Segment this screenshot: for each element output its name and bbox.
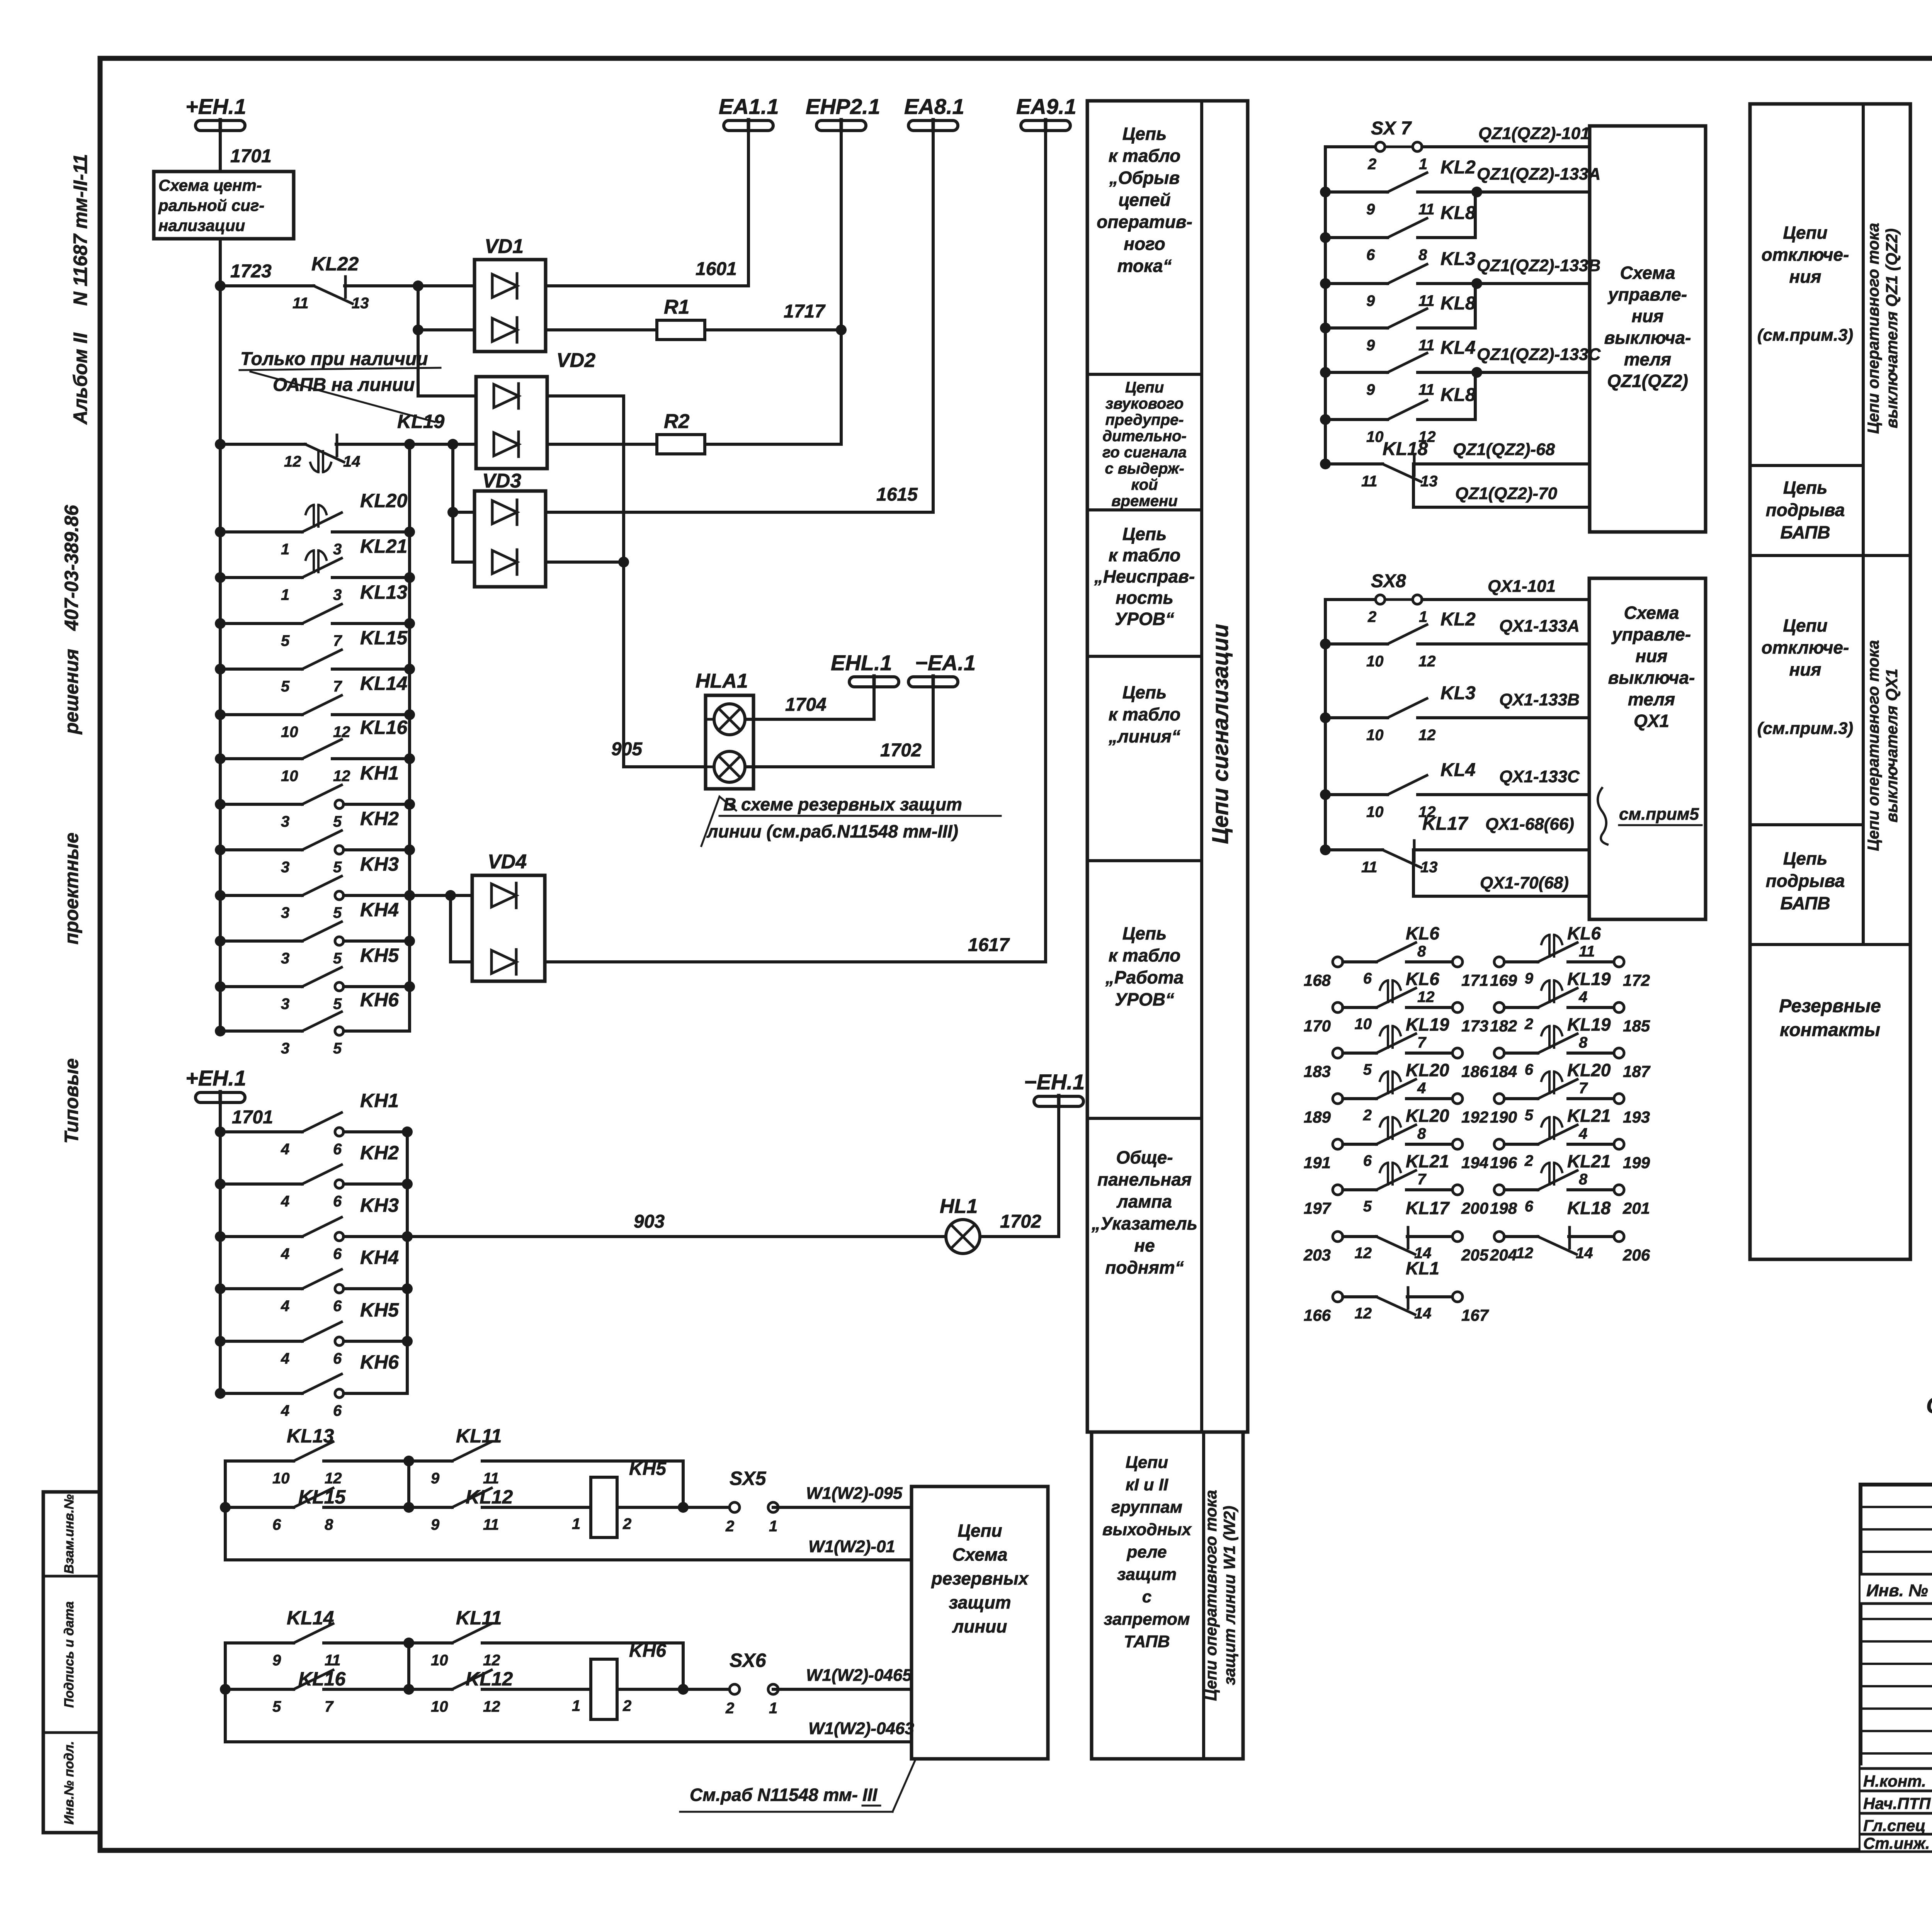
- contact KL3 (QX group): [1320, 712, 1331, 723]
- svg-text:12: 12: [1418, 653, 1436, 670]
- svg-text:200: 200: [1461, 1199, 1488, 1217]
- svg-text:5: 5: [1363, 1198, 1372, 1215]
- svg-text:ральной сиг-: ральной сиг-: [158, 196, 264, 214]
- node KL19 VD feed: [447, 439, 458, 450]
- svg-text:„линия“: „линия“: [1108, 726, 1180, 746]
- wire QX1-101: [1422, 598, 1589, 601]
- svg-text:не: не: [1134, 1235, 1155, 1255]
- svg-text:KL4: KL4: [1440, 760, 1476, 780]
- svg-text:5: 5: [272, 1698, 281, 1715]
- svg-text:12: 12: [1355, 1305, 1372, 1322]
- wire QZ1(QZ2)-101: [1422, 145, 1590, 148]
- spare contact KL6 (169-172): [1494, 957, 1504, 967]
- svg-text:203: 203: [1303, 1246, 1331, 1264]
- svg-text:решения: решения: [61, 649, 82, 735]
- wire right bus (lamp ladder): [406, 1132, 409, 1393]
- svg-text:3: 3: [281, 859, 289, 876]
- svg-text:182: 182: [1490, 1017, 1517, 1035]
- svg-text:3: 3: [333, 586, 342, 603]
- svg-text:выключателя QX1: выключателя QX1: [1883, 669, 1901, 822]
- wire EA9.1 down to 1617: [1044, 131, 1047, 962]
- svg-text:4: 4: [281, 1141, 289, 1158]
- svg-text:2: 2: [725, 1518, 734, 1535]
- wire VD4 to EA9.1 node 1617: [545, 960, 1046, 963]
- svg-text:Нач.ПТП: Нач.ПТП: [1863, 1794, 1931, 1813]
- svg-text:5: 5: [1363, 1061, 1372, 1078]
- stamp box column: [43, 1492, 100, 1833]
- contact KH5 (lamp ladder): [215, 1336, 226, 1347]
- contact KH2 (signal ladder): [215, 844, 226, 855]
- svg-text:W1(W2)-01: W1(W2)-01: [808, 1537, 895, 1556]
- box Схема центральной сигнализации: [154, 172, 294, 239]
- contact KL2 (QX group): [1320, 639, 1331, 649]
- svg-text:14: 14: [1414, 1305, 1432, 1322]
- svg-text:+EH.1: +EH.1: [185, 94, 246, 119]
- svg-text:Схема: Схема: [1620, 263, 1675, 283]
- box Цепи Схема резервных защит линии: [912, 1486, 1048, 1759]
- svg-text:7: 7: [1417, 1171, 1427, 1188]
- svg-text:172: 172: [1623, 971, 1650, 989]
- svg-text:(см.прим.3): (см.прим.3): [1757, 719, 1853, 738]
- svg-text:5: 5: [333, 1040, 342, 1057]
- svg-text:с выдерж-: с выдерж-: [1105, 460, 1184, 477]
- wire bus (KH5 chain): [224, 1461, 227, 1560]
- spare contact KL21 (198-201): [1494, 1185, 1504, 1195]
- svg-text:6: 6: [333, 1298, 342, 1315]
- svg-text:БАПВ: БАПВ: [1780, 522, 1830, 542]
- svg-text:1: 1: [281, 586, 289, 603]
- svg-text:9: 9: [431, 1470, 440, 1487]
- svg-text:186: 186: [1461, 1062, 1489, 1080]
- svg-text:к табло: к табло: [1109, 945, 1181, 965]
- wire left bus (signal ladder): [219, 239, 222, 1031]
- svg-text:Только при наличии: Только при наличии: [240, 349, 428, 369]
- svg-text:KL20: KL20: [360, 490, 407, 511]
- svg-text:KH1: KH1: [360, 1090, 399, 1111]
- svg-text:4: 4: [1417, 1080, 1426, 1097]
- svg-text:12: 12: [1417, 989, 1435, 1006]
- contact KL20 (signal ladder): [215, 527, 226, 537]
- svg-text:6: 6: [1525, 1198, 1534, 1215]
- wire right bus (signal ladder): [408, 444, 411, 1031]
- svg-text:KL18: KL18: [1383, 439, 1428, 459]
- svg-text:5: 5: [1525, 1107, 1534, 1124]
- svg-text:7: 7: [1417, 1034, 1427, 1051]
- svg-text:12: 12: [284, 453, 301, 470]
- spare contact KL1 (166-167): [1333, 1292, 1343, 1302]
- svg-text:EHP2.1: EHP2.1: [806, 94, 880, 119]
- svg-text:11: 11: [1361, 859, 1378, 876]
- svg-text:8: 8: [1579, 1034, 1588, 1051]
- svg-text:11: 11: [483, 1470, 499, 1487]
- svg-text:8: 8: [325, 1516, 333, 1533]
- svg-text:6: 6: [1366, 246, 1375, 263]
- terminal EA9.1: [1021, 121, 1070, 131]
- svg-text:защит линии W1 (W2): защит линии W1 (W2): [1220, 1506, 1238, 1685]
- svg-text:1723: 1723: [230, 261, 272, 282]
- svg-text:III: III: [862, 1785, 878, 1805]
- svg-text:170: 170: [1304, 1017, 1331, 1035]
- svg-text:KH5: KH5: [629, 1459, 667, 1479]
- svg-text:KL11: KL11: [456, 1607, 502, 1629]
- svg-text:12: 12: [483, 1698, 500, 1715]
- svg-text:3: 3: [281, 950, 289, 967]
- svg-text:183: 183: [1304, 1062, 1331, 1080]
- contact KL17 (QX group): [1320, 844, 1331, 855]
- svg-text:EA1.1: EA1.1: [719, 94, 779, 119]
- wire bus (QX group): [1324, 600, 1327, 850]
- svg-text:дительно-: дительно-: [1102, 428, 1186, 445]
- svg-text:защит: защит: [1117, 1565, 1177, 1584]
- svg-text:4: 4: [281, 1298, 289, 1315]
- svg-text:12: 12: [325, 1470, 342, 1487]
- svg-text:QZ1(QZ2)-101: QZ1(QZ2)-101: [1478, 124, 1590, 143]
- svg-text:(см.прим.3): (см.прим.3): [1757, 326, 1853, 345]
- svg-text:12: 12: [1418, 727, 1436, 744]
- node KH6 chain mid: [403, 1638, 414, 1648]
- wire HLA1 to -EA.1 node 1702: [745, 687, 933, 767]
- svg-text:KL3: KL3: [1440, 683, 1476, 703]
- svg-text:KH4: KH4: [360, 1247, 399, 1268]
- svg-text:KL19: KL19: [397, 411, 444, 432]
- svg-text:2: 2: [1524, 1016, 1533, 1033]
- contact KH2 (lamp ladder): [215, 1179, 226, 1189]
- svg-text:1704: 1704: [785, 695, 827, 715]
- svg-text:Цепи: Цепи: [957, 1520, 1002, 1541]
- svg-text:Ст.инж.: Ст.инж.: [1863, 1834, 1930, 1852]
- svg-text:KL21: KL21: [1406, 1151, 1449, 1171]
- svg-text:903: 903: [634, 1211, 665, 1232]
- svg-text:Цепь: Цепь: [1122, 923, 1167, 943]
- title block outer: [1861, 1485, 1932, 1850]
- svg-text:6: 6: [333, 1350, 342, 1367]
- svg-text:5: 5: [281, 632, 290, 649]
- node 1717: [836, 324, 847, 335]
- svg-text:KL6: KL6: [1406, 969, 1439, 989]
- svg-text:нализации: нализации: [158, 216, 245, 234]
- contact KH6 (signal ladder): [215, 1026, 226, 1036]
- column box Цепи сигнализации: [1087, 101, 1248, 1432]
- wire VD2 top to HLA1 vertical: [547, 396, 624, 767]
- svg-text:VD4: VD4: [488, 851, 527, 873]
- svg-text:201: 201: [1622, 1199, 1650, 1217]
- svg-text:См.раб N11548 тм-: См.раб N11548 тм-: [690, 1785, 858, 1805]
- svg-text:линии (см.раб.N11548 тм-III): линии (см.раб.N11548 тм-III): [706, 821, 958, 841]
- svg-text:W1(W2)-0465: W1(W2)-0465: [806, 1666, 912, 1685]
- svg-text:6: 6: [333, 1245, 342, 1262]
- svg-text:УРОВ“: УРОВ“: [1115, 609, 1174, 629]
- svg-text:205: 205: [1461, 1246, 1489, 1264]
- svg-text:QX1-70(68): QX1-70(68): [1480, 873, 1569, 892]
- wire W1(W2)-01: [225, 1558, 912, 1561]
- spare contact KL17 (203-205): [1333, 1232, 1343, 1242]
- svg-text:кI и II: кI и II: [1126, 1475, 1168, 1494]
- svg-text:Схема: Схема: [952, 1544, 1008, 1565]
- svg-text:12: 12: [483, 1652, 500, 1669]
- svg-text:проектные: проектные: [61, 832, 82, 945]
- svg-text:13: 13: [1420, 473, 1438, 490]
- svg-text:4: 4: [281, 1350, 289, 1367]
- svg-text:7: 7: [325, 1698, 334, 1715]
- resistor R1: [546, 328, 657, 331]
- contact KH4 (lamp ladder): [215, 1283, 226, 1294]
- svg-text:теля: теля: [1628, 689, 1675, 709]
- svg-text:EHL.1: EHL.1: [831, 651, 892, 675]
- svg-text:EA8.1: EA8.1: [904, 94, 964, 119]
- wire VD3 bottom to join: [546, 561, 624, 564]
- svg-text:+EH.1: +EH.1: [185, 1066, 246, 1090]
- svg-text:11: 11: [1418, 337, 1435, 354]
- svg-text:предупре-: предупре-: [1105, 411, 1184, 428]
- svg-text:2: 2: [1367, 156, 1376, 173]
- svg-text:KL16: KL16: [360, 717, 408, 738]
- svg-text:QX1-133A: QX1-133A: [1499, 617, 1580, 635]
- svg-text:8: 8: [1418, 246, 1427, 263]
- node KL19 right bus: [404, 439, 415, 450]
- svg-text:5: 5: [333, 996, 342, 1013]
- svg-text:HL1: HL1: [940, 1195, 978, 1218]
- svg-text:1615: 1615: [876, 484, 918, 505]
- svg-text:KL19: KL19: [1567, 969, 1611, 989]
- svg-text:11: 11: [1418, 201, 1435, 218]
- svg-text:2: 2: [725, 1700, 734, 1717]
- svg-text:запретом: запретом: [1104, 1610, 1190, 1629]
- svg-text:KL6: KL6: [1567, 923, 1601, 943]
- svg-text:1: 1: [572, 1515, 580, 1532]
- svg-text:см.прим5: см.прим5: [1619, 805, 1699, 824]
- svg-text:184: 184: [1490, 1062, 1517, 1080]
- column box Цепи к I и II группам (W1 W2): [1092, 1432, 1243, 1759]
- svg-text:KH6: KH6: [360, 989, 399, 1011]
- svg-text:3: 3: [281, 904, 289, 921]
- svg-text:ность: ность: [1116, 588, 1173, 608]
- svg-text:2: 2: [622, 1697, 631, 1714]
- contact KH6 (lamp ladder): [215, 1388, 226, 1399]
- svg-text:контакты: контакты: [1780, 1020, 1880, 1040]
- svg-text:цепей: цепей: [1118, 190, 1170, 210]
- svg-text:10: 10: [281, 768, 298, 785]
- svg-text:166: 166: [1304, 1306, 1331, 1324]
- svg-text:Схема цент-: Схема цент-: [158, 176, 262, 194]
- svg-text:2: 2: [1524, 1152, 1533, 1169]
- svg-text:выключателя QZ1 (QZ2): выключателя QZ1 (QZ2): [1883, 228, 1901, 428]
- svg-text:6: 6: [1363, 1152, 1372, 1169]
- box Схема управления выключателя QZ1(QZ2): [1590, 126, 1706, 532]
- contact KL8 (QZ group, y615): [1320, 232, 1331, 243]
- wire VD3 top to EA8.1 node 1615: [546, 131, 933, 512]
- svg-text:197: 197: [1304, 1199, 1332, 1217]
- svg-text:1702: 1702: [1000, 1211, 1041, 1232]
- svg-text:407-03-389.86: 407-03-389.86: [61, 505, 82, 631]
- wire to VD2 top: [418, 330, 476, 396]
- terminal +EH.1 (lower): [196, 1092, 245, 1103]
- node 1723: [215, 280, 226, 291]
- svg-text:Цепи сигнализации: Цепи сигнализации: [1208, 624, 1233, 844]
- contact KH4 (signal ladder): [215, 936, 226, 946]
- svg-text:185: 185: [1623, 1017, 1650, 1035]
- svg-text:Цепи: Цепи: [1783, 223, 1827, 243]
- svg-text:KL21: KL21: [360, 535, 407, 557]
- svg-text:KL19: KL19: [1567, 1014, 1611, 1035]
- svg-text:1: 1: [1419, 156, 1427, 173]
- svg-text:198: 198: [1490, 1199, 1517, 1217]
- node VD3 top feed: [447, 507, 458, 518]
- svg-text:10: 10: [1355, 1016, 1372, 1033]
- svg-text:10: 10: [431, 1652, 448, 1669]
- svg-text:Цепь: Цепь: [1783, 848, 1828, 868]
- svg-text:Альбом II: Альбом II: [70, 332, 91, 425]
- svg-text:KH6: KH6: [360, 1351, 399, 1373]
- svg-text:QX1-101: QX1-101: [1488, 577, 1556, 596]
- svg-text:SX6: SX6: [730, 1650, 767, 1671]
- svg-text:KL20: KL20: [1567, 1060, 1611, 1080]
- relay KH6: [591, 1659, 617, 1719]
- svg-text:10: 10: [431, 1698, 448, 1715]
- svg-text:7: 7: [333, 678, 342, 695]
- svg-text:5: 5: [333, 813, 342, 830]
- svg-text:Цепи оперативного тока: Цепи оперативного тока: [1864, 223, 1882, 434]
- svg-text:10: 10: [272, 1470, 290, 1487]
- svg-text:KL13: KL13: [360, 581, 407, 603]
- wire HLA1 to EHL.1 node 1704: [745, 687, 874, 719]
- svg-text:8: 8: [1579, 1171, 1588, 1188]
- svg-text:14: 14: [343, 453, 361, 470]
- svg-text:„Обрыв: „Обрыв: [1109, 168, 1180, 188]
- svg-text:Цепи: Цепи: [1783, 615, 1827, 635]
- svg-text:9: 9: [1366, 292, 1375, 309]
- svg-text:SX5: SX5: [730, 1468, 767, 1489]
- column box Цепи отключения / оперативного тока: [1750, 104, 1910, 1259]
- svg-text:R2: R2: [664, 410, 690, 433]
- svg-text:„Работа: „Работа: [1105, 967, 1184, 987]
- wire KH3 row to VD4: [410, 894, 472, 897]
- spare contact KL19 (184-187): [1494, 1048, 1504, 1058]
- node VD4 feed: [445, 890, 456, 901]
- svg-text:Цепь: Цепь: [1122, 682, 1167, 702]
- terminal EA1.1: [724, 121, 773, 131]
- svg-text:с: с: [1142, 1587, 1151, 1606]
- svg-text:QZ1(QZ2): QZ1(QZ2): [1607, 371, 1688, 391]
- svg-text:Инв.№ подл.: Инв.№ подл.: [62, 1741, 77, 1825]
- svg-text:Схема выполнена на листах: Схема выполнена на листах 7,8,9: [1926, 1393, 1932, 1418]
- contact KL8 (QZ group, y1086): [1320, 414, 1331, 425]
- svg-text:Цепи оперативного тока: Цепи оперативного тока: [1864, 640, 1882, 851]
- svg-text:6: 6: [272, 1516, 281, 1533]
- svg-text:QZ1(QZ2)-133A: QZ1(QZ2)-133A: [1477, 165, 1600, 183]
- svg-text:VD3: VD3: [482, 470, 521, 492]
- wire +EH.1 lower stem: [219, 1103, 222, 1393]
- spare contact KL20 (190-193): [1494, 1094, 1504, 1104]
- wire bus (KH6 chain): [224, 1643, 227, 1742]
- svg-text:ния: ния: [1636, 646, 1668, 666]
- svg-text:193: 193: [1623, 1108, 1650, 1126]
- svg-text:KL15: KL15: [360, 627, 408, 649]
- svg-text:7: 7: [1579, 1080, 1588, 1097]
- svg-text:линии: линии: [952, 1616, 1007, 1636]
- svg-text:13: 13: [352, 295, 369, 312]
- svg-text:11: 11: [1579, 943, 1595, 960]
- svg-text:теля: теля: [1624, 349, 1671, 369]
- svg-text:звукового: звукового: [1105, 395, 1184, 412]
- contact KL18 (QZ group): [1320, 459, 1331, 469]
- contact KL2 (QZ group, y497): [1320, 187, 1331, 197]
- svg-text:лампа: лампа: [1116, 1191, 1172, 1211]
- svg-text:6: 6: [333, 1193, 342, 1210]
- wire QZ1(QZ2)-70 loop: [1413, 464, 1590, 507]
- svg-text:реле: реле: [1126, 1543, 1167, 1561]
- svg-text:−EH.1: −EH.1: [1024, 1070, 1085, 1094]
- svg-text:168: 168: [1304, 971, 1331, 989]
- contact KH1 (signal ladder): [215, 799, 226, 810]
- svg-text:905: 905: [611, 739, 643, 759]
- terminal EHL.1: [849, 677, 899, 687]
- svg-text:ния: ния: [1789, 267, 1821, 287]
- svg-text:10: 10: [1366, 804, 1384, 821]
- svg-text:10: 10: [1366, 727, 1384, 744]
- svg-text:Взам.инв.№: Взам.инв.№: [62, 1494, 77, 1574]
- svg-text:KH5: KH5: [360, 945, 399, 966]
- svg-text:1702: 1702: [880, 740, 922, 761]
- svg-text:3: 3: [333, 541, 342, 558]
- svg-text:1: 1: [769, 1700, 777, 1717]
- svg-text:2: 2: [1367, 608, 1376, 625]
- svg-text:„Неисправ-: „Неисправ-: [1094, 566, 1195, 586]
- wire QX1-70(68) loop: [1413, 850, 1589, 896]
- svg-text:Цепи: Цепи: [1126, 1453, 1168, 1472]
- svg-text:KL21: KL21: [1567, 1106, 1611, 1126]
- terminal -EH.1: [1034, 1096, 1083, 1106]
- svg-text:ОАПВ на линии: ОАПВ на линии: [273, 375, 415, 395]
- svg-text:KL8: KL8: [1440, 293, 1476, 314]
- svg-text:194: 194: [1461, 1154, 1488, 1172]
- svg-text:10: 10: [281, 724, 298, 741]
- svg-text:199: 199: [1623, 1154, 1650, 1172]
- svg-text:11: 11: [1418, 381, 1435, 398]
- svg-text:3: 3: [281, 1040, 289, 1057]
- node KH5 out: [678, 1502, 689, 1513]
- svg-text:10: 10: [1366, 428, 1384, 445]
- svg-text:4: 4: [281, 1193, 289, 1210]
- svg-text:поднят“: поднят“: [1105, 1257, 1184, 1278]
- svg-text:управле-: управле-: [1611, 624, 1691, 644]
- svg-text:QX1-133C: QX1-133C: [1499, 767, 1580, 786]
- svg-text:2: 2: [622, 1515, 631, 1532]
- svg-text:167: 167: [1461, 1306, 1489, 1324]
- svg-text:1: 1: [769, 1518, 777, 1535]
- spare contact KL20 (189-192): [1333, 1094, 1343, 1104]
- svg-text:11: 11: [1418, 292, 1435, 309]
- svg-text:KL18: KL18: [1567, 1198, 1611, 1218]
- svg-text:ния: ния: [1632, 306, 1664, 326]
- svg-text:Н.конт.: Н.конт.: [1863, 1772, 1926, 1790]
- svg-text:4: 4: [1578, 1125, 1587, 1142]
- wire bus (QZ group): [1324, 147, 1327, 464]
- svg-text:12: 12: [1516, 1245, 1534, 1262]
- svg-text:1717: 1717: [784, 301, 826, 322]
- svg-text:R1: R1: [664, 296, 689, 318]
- svg-text:12: 12: [1355, 1245, 1372, 1262]
- svg-text:1701: 1701: [232, 1107, 273, 1128]
- svg-text:6: 6: [1525, 1061, 1534, 1078]
- svg-text:выключа-: выключа-: [1604, 328, 1691, 348]
- contact KL21 (signal ladder): [215, 572, 226, 583]
- svg-text:KL2: KL2: [1440, 157, 1476, 178]
- svg-text:УРОВ“: УРОВ“: [1115, 989, 1174, 1009]
- node KH5 chain mid: [403, 1456, 414, 1466]
- svg-text:1701: 1701: [230, 146, 272, 166]
- svg-text:QZ1(QZ2)-70: QZ1(QZ2)-70: [1455, 484, 1558, 503]
- spare contact KL19 (183-186): [1333, 1048, 1343, 1058]
